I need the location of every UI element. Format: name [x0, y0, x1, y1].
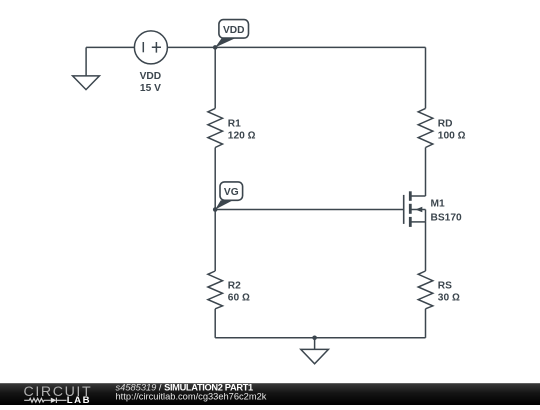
- svg-text:VG: VG: [224, 187, 239, 198]
- svg-text:R1: R1: [228, 119, 241, 130]
- svg-text:M1: M1: [431, 198, 445, 209]
- wire RD to drain: [425, 148, 427, 197]
- ground GND2 stem: [314, 338, 316, 350]
- wire R2 bottom lead: [214, 309, 216, 338]
- svg-text:60 Ω: 60 Ω: [228, 293, 250, 304]
- svg-text:LAB: LAB: [67, 395, 91, 405]
- resistor R1 zigzag: [208, 108, 223, 147]
- node ground junction dot: [312, 336, 317, 341]
- wire left column top lead: [214, 47, 216, 108]
- wire right column top lead: [425, 47, 427, 108]
- ground GND2 triangle: [301, 349, 329, 363]
- transistor M1 channel bars: [409, 191, 412, 201]
- svg-text:RS: RS: [438, 281, 452, 292]
- footer logo diode triangle: [51, 398, 57, 403]
- resistor RD zigzag: [418, 108, 433, 147]
- svg-text:R2: R2: [228, 281, 241, 292]
- minus terminal bar: [142, 42, 144, 52]
- ground GND1 stem: [85, 47, 87, 76]
- wire R1 to VG node: [214, 148, 216, 210]
- wire source to RS: [425, 222, 427, 271]
- wire RS bottom lead: [425, 309, 427, 338]
- svg-text:VDD: VDD: [223, 25, 245, 36]
- footer logo resistor-diode line: [24, 398, 66, 403]
- wire source link: [412, 221, 426, 223]
- node VDD flag box: [219, 20, 249, 38]
- svg-text:30 Ω: 30 Ω: [438, 293, 460, 304]
- ground GND1 triangle: [73, 76, 100, 90]
- wire drain link: [412, 195, 426, 197]
- node VG junction dot: [213, 207, 218, 212]
- node VG flag pointer: [215, 200, 233, 209]
- svg-text:120 Ω: 120 Ω: [228, 131, 256, 142]
- resistor R2 zigzag: [208, 271, 223, 309]
- svg-text:100 Ω: 100 Ω: [438, 131, 466, 142]
- svg-text:RD: RD: [438, 119, 453, 130]
- svg-text:VDD: VDD: [140, 71, 162, 82]
- transistor M1 body arrow: [415, 207, 422, 212]
- wire body-source join: [425, 210, 427, 222]
- node VDD junction dot: [213, 45, 218, 50]
- wire source to top-right corner: [167, 46, 425, 48]
- transistor M1 gate pole: [403, 195, 405, 224]
- wire bottom rail: [215, 337, 425, 339]
- node VG flag box: [220, 182, 243, 200]
- wire top-left to source: [86, 46, 134, 48]
- wire gate (VG to M1): [215, 209, 404, 211]
- footer bar: [0, 383, 540, 405]
- plus terminal: [152, 42, 161, 53]
- svg-text:BS170: BS170: [431, 212, 462, 223]
- svg-text:15 V: 15 V: [140, 83, 161, 94]
- resistor RS zigzag: [418, 271, 433, 309]
- voltage source V1 circle: [134, 31, 167, 64]
- node VDD flag pointer: [215, 38, 235, 47]
- wire VG node to R2: [214, 210, 216, 272]
- svg-text:http://circuitlab.com/cg33eh76: http://circuitlab.com/cg33eh76c2m2k: [116, 392, 267, 402]
- transistor M1 body line: [412, 209, 426, 211]
